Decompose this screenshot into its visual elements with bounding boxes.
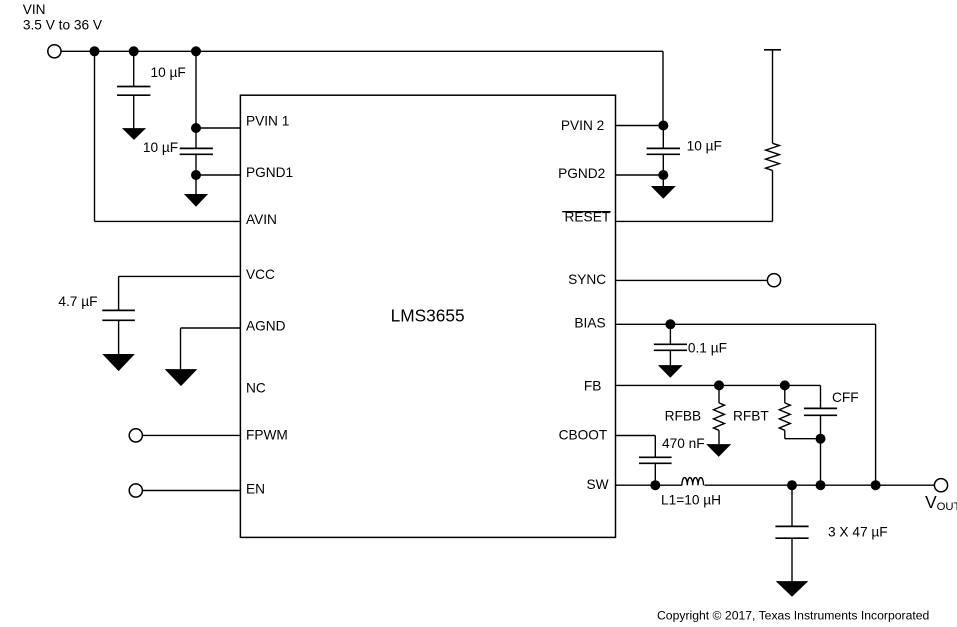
svg-text:FB: FB (584, 379, 602, 394)
svg-text:AVIN: AVIN (246, 212, 277, 227)
svg-text:RFBT: RFBT (733, 409, 769, 424)
svg-text:10 µF: 10 µF (143, 140, 178, 155)
svg-text:CFF: CFF (832, 390, 859, 405)
svg-text:BIAS: BIAS (574, 316, 605, 331)
svg-text:AGND: AGND (246, 319, 286, 334)
svg-text:FPWM: FPWM (246, 428, 288, 443)
svg-text:RFBB: RFBB (665, 409, 702, 424)
svg-text:LMS3655: LMS3655 (391, 305, 465, 325)
svg-text:3 X 47 µF: 3 X 47 µF (828, 525, 888, 540)
svg-text:Copyright © 2017, Texas Instru: Copyright © 2017, Texas Instruments Inco… (657, 609, 929, 623)
svg-text:SYNC: SYNC (568, 272, 606, 287)
svg-text:RESET: RESET (565, 210, 611, 225)
svg-text:470 nF: 470 nF (662, 436, 705, 451)
svg-text:4.7 µF: 4.7 µF (58, 294, 97, 309)
svg-text:PGND2: PGND2 (558, 166, 605, 181)
svg-text:10 µF: 10 µF (687, 139, 722, 154)
svg-text:PVIN 2: PVIN 2 (561, 118, 604, 133)
svg-text:NC: NC (246, 381, 266, 396)
svg-text:VCC: VCC (246, 267, 275, 282)
svg-text:SW: SW (587, 477, 609, 492)
svg-text:PGND1: PGND1 (246, 165, 293, 180)
svg-text:CBOOT: CBOOT (559, 427, 608, 442)
svg-text:3.5 V to 36 V: 3.5 V to 36 V (23, 17, 103, 32)
svg-text:L1=10 µH: L1=10 µH (661, 493, 721, 508)
svg-text:0.1 µF: 0.1 µF (688, 340, 727, 355)
svg-text:PVIN 1: PVIN 1 (246, 114, 289, 129)
svg-text:10 µF: 10 µF (151, 65, 186, 80)
svg-text:VIN: VIN (23, 2, 46, 17)
svg-text:EN: EN (246, 482, 265, 497)
